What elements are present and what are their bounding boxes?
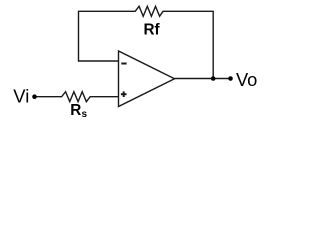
svg-text:R: R	[70, 102, 81, 119]
svg-text:Vi: Vi	[13, 86, 29, 107]
svg-text:Vo: Vo	[236, 69, 257, 90]
svg-text:s: s	[82, 109, 88, 120]
svg-text:Rf: Rf	[144, 22, 161, 39]
